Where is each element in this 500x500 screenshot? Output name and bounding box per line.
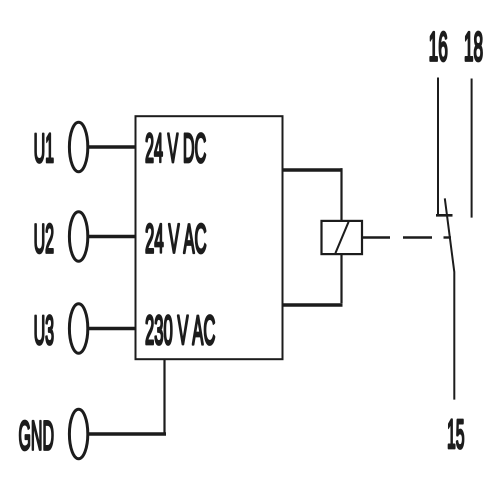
svg-text:230 V AC: 230 V AC <box>145 307 215 353</box>
svg-text:18: 18 <box>464 23 483 69</box>
svg-text:24 V DC: 24 V DC <box>145 125 206 171</box>
svg-text:U3: U3 <box>34 307 55 353</box>
svg-text:15: 15 <box>447 411 465 457</box>
svg-text:GND: GND <box>19 413 55 459</box>
svg-text:U2: U2 <box>34 215 55 261</box>
svg-text:24 V AC: 24 V AC <box>145 215 207 261</box>
svg-text:16: 16 <box>429 23 448 69</box>
svg-text:U1: U1 <box>34 125 55 171</box>
